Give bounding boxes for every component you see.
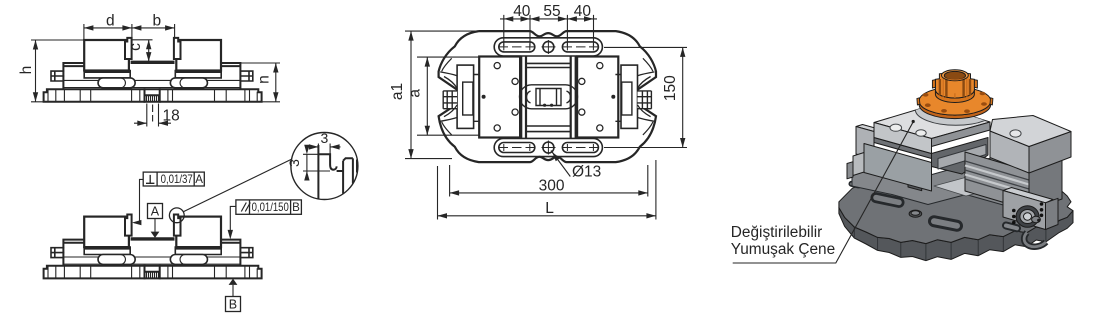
bottom slot centermarks (499, 141, 598, 155)
right end cap (615, 65, 637, 128)
small dark stop block (908, 173, 922, 191)
left jaw lower body front (874, 138, 932, 159)
flange side tabs (917, 98, 993, 105)
svg-text:0,01/150: 0,01/150 (252, 201, 289, 214)
guide rails (521, 56, 576, 138)
center screw block in gap (938, 145, 986, 170)
gear side teeth (932, 80, 977, 88)
base small hole (909, 210, 922, 217)
gap between jaws (dark) (932, 138, 989, 175)
svg-text:18: 18 (163, 108, 180, 125)
saddle light top sliver (934, 167, 1036, 196)
right lower mass front (965, 152, 1029, 210)
left end cap (457, 65, 479, 128)
300 dim (450, 165, 648, 197)
arrows d/b (84, 25, 94, 30)
svg-text:a1: a1 (389, 83, 406, 100)
base tiny slot far left (852, 184, 859, 186)
a dim (417, 57, 479, 135)
end cap top (1003, 188, 1053, 203)
bolt dots (1012, 202, 1043, 224)
flange holes (923, 92, 987, 113)
gear teeth shading (940, 77, 970, 98)
gear hub base (935, 90, 974, 103)
svg-text:150: 150 (662, 75, 679, 101)
plan dimensions (405, 15, 687, 220)
arrows c (146, 40, 151, 50)
flange rim lower (919, 101, 991, 119)
datum A triangle (151, 232, 160, 238)
left screw (plan) (443, 91, 457, 109)
left jaw lower body left steps (853, 153, 864, 176)
gear body (935, 72, 974, 98)
FCF2 leader (230, 206, 236, 234)
base slot left2 (934, 221, 957, 226)
gear top rim (942, 70, 969, 81)
left slab block (856, 125, 881, 132)
arrows n (273, 63, 278, 73)
bottom right slot (562, 143, 598, 153)
end cap front (1003, 191, 1046, 230)
a1 dim (405, 31, 479, 159)
svg-text:Yumuşak Çene: Yumuşak Çene (731, 241, 835, 258)
bottom center hole (543, 142, 554, 153)
carriage mid band on base (852, 156, 1048, 208)
left soft jaw top face (874, 105, 990, 139)
right jaw plate (plan) (577, 57, 618, 138)
top center hole (543, 41, 554, 52)
svg-text:55: 55 (543, 3, 560, 20)
svg-text:a: a (407, 89, 424, 98)
svg-text:3: 3 (286, 159, 302, 167)
detail dim 3 horizontal (303, 144, 341, 175)
leader end dot (912, 120, 915, 123)
upper front view (44, 38, 262, 102)
svg-text:c: c (127, 43, 144, 51)
datum A symbol (148, 204, 163, 232)
screw hub rings (1016, 206, 1039, 228)
c dimension line (132, 40, 153, 62)
base slot left1 (876, 198, 899, 203)
svg-text:A: A (195, 173, 203, 186)
base right slot (1006, 226, 1017, 229)
left jaw holes (890, 124, 902, 131)
rail crossbars (527, 63, 570, 131)
left jaw plate (plan) (479, 57, 520, 138)
svg-text:B: B (292, 201, 300, 214)
datum B triangle (229, 279, 238, 285)
flange top (919, 87, 991, 115)
svg-text:b: b (153, 13, 162, 30)
center nut mechanism (520, 85, 578, 109)
orange flange assembly (917, 70, 993, 119)
plate center pin holes (482, 95, 486, 99)
plate screw holes (494, 63, 603, 132)
FCF1 arrow (132, 220, 142, 225)
O13 leader (551, 151, 570, 177)
svg-text:L: L (545, 200, 554, 217)
bottom slot capsule (494, 138, 602, 156)
right top block side (1029, 132, 1071, 174)
bottom left slot (499, 143, 535, 153)
svg-text:B: B (229, 298, 237, 312)
svg-text:40: 40 (574, 3, 592, 20)
svg-text:40: 40 (513, 3, 531, 20)
40/55/40 dim (500, 15, 597, 46)
jaw step profile in detail (318, 145, 357, 199)
svg-text:Ø13: Ø13 (572, 164, 601, 181)
right top block front (990, 131, 1029, 173)
top slot capsule (494, 38, 602, 56)
base top face (839, 172, 1073, 244)
top right slot (562, 42, 598, 52)
right lower mass side (1029, 159, 1062, 210)
right screw (plan) (638, 91, 652, 109)
right wing shading (638, 72, 655, 121)
plan body outline (439, 31, 656, 162)
top left slot (499, 42, 535, 52)
n extension lines (240, 63, 280, 102)
150 dim (604, 47, 687, 147)
parallelism feature control frame (236, 200, 302, 214)
svg-text:3: 3 (321, 130, 329, 146)
top slot centermarks (499, 40, 598, 54)
outline inner chamfer curves (442, 58, 653, 135)
detail circle (291, 133, 358, 200)
base side wall (839, 208, 1073, 261)
dimension d and b extension lines (84, 24, 175, 43)
18 centerline (152, 105, 154, 122)
base horseshoe right (1024, 233, 1046, 247)
label text (731, 224, 835, 258)
svg-text:300: 300 (539, 177, 565, 194)
base wall scallop lines (854, 227, 1046, 261)
FCF2 arrow (228, 230, 233, 240)
lower front view (44, 215, 262, 279)
svg-text:Değiştirilebilir: Değiştirilebilir (731, 224, 823, 241)
label leader (733, 122, 914, 263)
left soft jaw gap face (932, 122, 991, 147)
balloon leader to detail (183, 159, 292, 212)
svg-text:d: d (106, 13, 115, 30)
right top block top (990, 116, 1071, 147)
h extension lines (31, 40, 84, 102)
left wing shading (440, 72, 457, 121)
end cap side (1046, 198, 1059, 229)
balloon circle (169, 208, 184, 223)
left soft jaw front face (874, 123, 932, 154)
svg-text:h: h (18, 66, 35, 75)
right lower mass rails stripes (965, 161, 1029, 198)
L dim (438, 160, 656, 220)
arrows h (33, 40, 38, 50)
svg-text:0,01/37: 0,01/37 (161, 173, 193, 186)
datum B symbol (226, 285, 241, 312)
svg-text:A: A (151, 205, 160, 219)
FCF1 leader (134, 179, 143, 222)
arrows 18 (137, 121, 147, 126)
bore (944, 71, 965, 79)
right top hole (1010, 130, 1021, 137)
svg-text:n: n (256, 75, 273, 84)
18 extension lines (134, 104, 171, 127)
perpendicularity feature control frame (143, 172, 204, 186)
